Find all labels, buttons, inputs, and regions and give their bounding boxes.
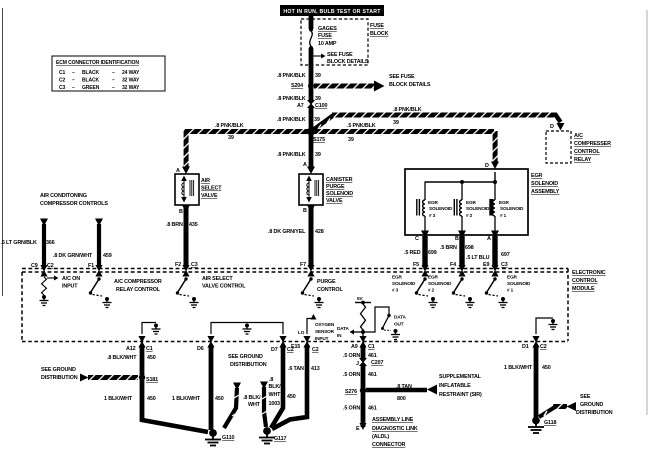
- svg-text:C2: C2: [47, 263, 54, 269]
- svg-text:VALVE CONTROL: VALVE CONTROL: [202, 284, 246, 290]
- svg-text:MODULE: MODULE: [572, 286, 595, 292]
- svg-text:32 WAY: 32 WAY: [122, 85, 140, 91]
- svg-text:32 WAY: 32 WAY: [122, 78, 140, 84]
- svg-text:461: 461: [368, 406, 377, 412]
- svg-text:A: A: [176, 168, 180, 174]
- svg-text:C1: C1: [368, 344, 375, 350]
- svg-text:.6 TAN: .6 TAN: [288, 366, 304, 372]
- svg-text:G118: G118: [544, 420, 556, 426]
- svg-text:# 2: # 2: [428, 288, 435, 293]
- svg-text:WHT: WHT: [269, 392, 282, 398]
- svg-text:SOLENOID: SOLENOID: [500, 206, 524, 211]
- svg-text:COMPRESSOR CONTROLS: COMPRESSOR CONTROLS: [40, 201, 108, 207]
- svg-text:1 BLK/WHT: 1 BLK/WHT: [172, 396, 201, 402]
- svg-text:EGR: EGR: [531, 173, 542, 179]
- svg-text:SOLENOID: SOLENOID: [429, 206, 453, 211]
- svg-text:EGR: EGR: [499, 200, 509, 205]
- svg-text:FUSE: FUSE: [318, 33, 332, 39]
- svg-text:.5 BRN: .5 BRN: [440, 245, 457, 251]
- svg-text:A7: A7: [297, 103, 304, 109]
- svg-text:SOLENOID: SOLENOID: [507, 281, 531, 286]
- svg-text:HOT IN RUN, BULB TEST OR START: HOT IN RUN, BULB TEST OR START: [283, 9, 381, 15]
- svg-text:VALVE: VALVE: [201, 193, 218, 199]
- svg-text:S204: S204: [291, 83, 303, 89]
- svg-text:–: –: [112, 85, 115, 91]
- svg-text:24 WAY: 24 WAY: [122, 70, 140, 76]
- svg-text:LO: LO: [298, 330, 305, 335]
- svg-text:F2: F2: [175, 262, 181, 268]
- svg-text:INFLATABLE: INFLATABLE: [439, 383, 471, 389]
- svg-text:PURGE: PURGE: [326, 184, 345, 190]
- svg-text:–: –: [72, 78, 75, 84]
- svg-text:.8 DK GRN/YEL: .8 DK GRN/YEL: [268, 229, 306, 235]
- svg-text:ASSEMBLY LINE: ASSEMBLY LINE: [372, 417, 414, 423]
- svg-text:E9: E9: [483, 262, 489, 268]
- svg-text:RELAY CONTROL: RELAY CONTROL: [116, 287, 161, 293]
- svg-text:A/C ON: A/C ON: [62, 276, 80, 282]
- svg-text:A: A: [487, 236, 491, 242]
- svg-text:GAGES: GAGES: [318, 26, 337, 32]
- svg-text:.8 BLK/: .8 BLK/: [243, 395, 261, 401]
- svg-text:.8 BRN: .8 BRN: [166, 222, 183, 228]
- svg-text:39: 39: [315, 73, 321, 79]
- svg-text:F4: F4: [450, 262, 456, 268]
- svg-text:C9: C9: [31, 263, 38, 269]
- svg-text:RESTRAINT (SIR): RESTRAINT (SIR): [439, 392, 482, 398]
- svg-text:B: B: [455, 236, 459, 242]
- svg-text:OUT: OUT: [394, 322, 404, 327]
- svg-text:EGR: EGR: [428, 200, 438, 205]
- svg-text:D1: D1: [522, 344, 529, 350]
- svg-text:39: 39: [348, 137, 354, 143]
- svg-text:GREEN: GREEN: [82, 85, 100, 91]
- svg-text:A/C: A/C: [574, 133, 583, 139]
- svg-text:DIAGNOSTIC LINK: DIAGNOSTIC LINK: [372, 426, 418, 432]
- svg-text:BLK/: BLK/: [269, 384, 282, 390]
- svg-text:EGR: EGR: [392, 275, 402, 280]
- svg-text:1 BLK/WHT: 1 BLK/WHT: [504, 365, 533, 371]
- svg-text:DISTRIBUTION: DISTRIBUTION: [576, 410, 613, 416]
- svg-text:# 1: # 1: [500, 213, 507, 218]
- svg-text:WHT: WHT: [248, 402, 261, 408]
- svg-text:INPUT: INPUT: [62, 284, 78, 290]
- svg-text:A12: A12: [126, 346, 136, 352]
- svg-text:SOLENOID: SOLENOID: [428, 281, 452, 286]
- svg-text:.8 DK GRN/WHT: .8 DK GRN/WHT: [53, 253, 93, 259]
- svg-text:BLACK: BLACK: [82, 70, 99, 76]
- svg-text:E: E: [356, 426, 360, 432]
- svg-text:DATA: DATA: [394, 315, 406, 320]
- svg-text:S181: S181: [146, 377, 158, 383]
- svg-text:SEE: SEE: [580, 394, 591, 400]
- svg-text:435: 435: [189, 222, 198, 228]
- svg-text:A/C COMPRESSOR: A/C COMPRESSOR: [114, 279, 162, 285]
- svg-text:INPUT: INPUT: [315, 336, 329, 341]
- svg-text:D: D: [485, 163, 489, 169]
- svg-text:.8: .8: [269, 377, 273, 383]
- svg-text:BLOCK: BLOCK: [370, 31, 389, 37]
- svg-text:.8 PNK/BLK: .8 PNK/BLK: [277, 96, 306, 102]
- svg-text:ELECTRONIC: ELECTRONIC: [572, 270, 606, 276]
- svg-text:450: 450: [147, 396, 156, 402]
- svg-text:SUPPLEMENTAL: SUPPLEMENTAL: [439, 374, 482, 380]
- svg-text:F1: F1: [88, 263, 94, 269]
- svg-text:450: 450: [147, 355, 156, 361]
- svg-text:450: 450: [542, 365, 551, 371]
- svg-text:EGR: EGR: [428, 275, 438, 280]
- svg-text:SEE FUSE: SEE FUSE: [327, 52, 353, 58]
- svg-text:10 AMP: 10 AMP: [318, 41, 337, 47]
- svg-text:C207: C207: [371, 360, 383, 366]
- svg-text:C2: C2: [59, 78, 66, 84]
- svg-text:A9: A9: [351, 344, 358, 350]
- svg-text:VALVE: VALVE: [326, 198, 343, 204]
- svg-text:CONTROL: CONTROL: [317, 287, 343, 293]
- svg-text:# 3: # 3: [429, 213, 436, 218]
- svg-text:B: B: [303, 208, 307, 214]
- svg-text:.5 LT BLU: .5 LT BLU: [466, 255, 490, 261]
- svg-text:# 2: # 2: [466, 213, 473, 218]
- svg-text:S175: S175: [313, 137, 325, 143]
- svg-text:SOLENOID: SOLENOID: [326, 191, 353, 197]
- svg-text:699: 699: [428, 250, 437, 256]
- svg-text:1 BLK/WHT: 1 BLK/WHT: [104, 396, 133, 402]
- svg-text:F7: F7: [300, 262, 306, 268]
- svg-text:G117: G117: [274, 436, 286, 442]
- svg-text:# 3: # 3: [392, 288, 399, 293]
- svg-text:FUSE: FUSE: [370, 23, 384, 29]
- svg-text:698: 698: [465, 245, 474, 251]
- svg-text:–: –: [112, 78, 115, 84]
- svg-text:366: 366: [46, 240, 55, 246]
- svg-text:.5 ORN: .5 ORN: [343, 372, 360, 378]
- svg-text:# 1: # 1: [507, 288, 514, 293]
- svg-text:ASSEMBLY: ASSEMBLY: [531, 189, 560, 195]
- svg-text:CONTROL: CONTROL: [572, 278, 598, 284]
- svg-text:IN: IN: [337, 333, 342, 338]
- svg-text:39: 39: [315, 152, 321, 158]
- svg-text:EGR: EGR: [507, 275, 517, 280]
- svg-text:BLOCK DETAILS: BLOCK DETAILS: [389, 82, 431, 88]
- svg-text:CONTROL: CONTROL: [574, 149, 600, 155]
- svg-text:.8 PNK/BLK: .8 PNK/BLK: [215, 123, 244, 129]
- svg-text:C2: C2: [540, 344, 547, 350]
- svg-text:697: 697: [501, 252, 510, 258]
- svg-text:D7: D7: [271, 347, 278, 353]
- svg-text:461: 461: [368, 353, 377, 359]
- svg-text:F5: F5: [413, 262, 419, 268]
- svg-text:.8 TAN: .8 TAN: [396, 384, 412, 390]
- svg-text:461: 461: [368, 372, 377, 378]
- svg-text:BLACK: BLACK: [82, 78, 99, 84]
- svg-text:CONNECTOR: CONNECTOR: [372, 442, 406, 448]
- svg-text:E15: E15: [291, 344, 300, 350]
- svg-text:DATA: DATA: [337, 326, 349, 331]
- svg-text:428: 428: [315, 229, 324, 235]
- svg-text:SOLENOID: SOLENOID: [466, 206, 490, 211]
- svg-text:C1: C1: [146, 346, 153, 352]
- svg-text:SEE GROUND: SEE GROUND: [228, 354, 263, 360]
- svg-text:.5 ORN: .5 ORN: [343, 406, 360, 412]
- svg-text:.5 RED: .5 RED: [404, 250, 421, 256]
- svg-text:.5 ORN: .5 ORN: [343, 353, 360, 359]
- svg-text:SENSOR: SENSOR: [315, 329, 335, 334]
- svg-text:1003: 1003: [269, 401, 281, 407]
- svg-text:CANISTER: CANISTER: [326, 177, 353, 183]
- svg-text:C: C: [415, 236, 419, 242]
- svg-text:A: A: [303, 162, 307, 168]
- svg-text:C3: C3: [501, 262, 508, 268]
- svg-text:AIR SELECT: AIR SELECT: [202, 276, 233, 282]
- svg-text:SOLENOID: SOLENOID: [392, 281, 416, 286]
- svg-text:AIR CONDITONING: AIR CONDITONING: [40, 193, 87, 199]
- svg-text:BLOCK DETAILS: BLOCK DETAILS: [327, 59, 369, 65]
- svg-text:SELECT: SELECT: [201, 186, 222, 192]
- svg-text:C100: C100: [315, 103, 327, 109]
- svg-text:C2: C2: [312, 347, 319, 353]
- svg-text:G110: G110: [222, 435, 234, 441]
- svg-text:.8 BLK/WHT: .8 BLK/WHT: [107, 355, 137, 361]
- svg-text:DISTRIBUTION: DISTRIBUTION: [41, 375, 78, 381]
- svg-text:D6: D6: [197, 346, 204, 352]
- svg-text:800: 800: [397, 396, 406, 402]
- svg-text:39: 39: [315, 96, 321, 102]
- svg-text:C3: C3: [59, 85, 66, 91]
- svg-text:EGR: EGR: [466, 200, 476, 205]
- svg-text:450: 450: [215, 396, 224, 402]
- svg-text:–: –: [112, 70, 115, 76]
- svg-text:.8 PNK/BLK: .8 PNK/BLK: [277, 152, 306, 158]
- svg-text:413: 413: [311, 366, 320, 372]
- svg-text:S276: S276: [345, 389, 357, 395]
- svg-text:.8 PNK/BLK: .8 PNK/BLK: [277, 73, 306, 79]
- svg-text:.5 LT GRN/BLK: .5 LT GRN/BLK: [1, 240, 38, 246]
- svg-text:SOLENOID: SOLENOID: [531, 181, 558, 187]
- svg-text:OXYGEN: OXYGEN: [315, 322, 335, 327]
- svg-text:ECM CONNECTOR IDENTIFICATION: ECM CONNECTOR IDENTIFICATION: [56, 60, 139, 66]
- svg-text:–: –: [72, 70, 75, 76]
- svg-text:SEE GROUND: SEE GROUND: [41, 367, 76, 373]
- svg-text:RELAY: RELAY: [574, 157, 592, 163]
- svg-text:.8 PNK/BLK: .8 PNK/BLK: [277, 117, 306, 123]
- svg-text:39: 39: [314, 117, 320, 123]
- svg-text:DISTRIBUTION: DISTRIBUTION: [230, 362, 267, 368]
- svg-text:C1: C1: [59, 70, 66, 76]
- svg-text:C3: C3: [191, 262, 198, 268]
- svg-text:AIR: AIR: [201, 178, 210, 184]
- svg-text:PURGE: PURGE: [317, 279, 336, 285]
- svg-text:B: B: [179, 209, 183, 215]
- svg-text:459: 459: [103, 253, 112, 259]
- svg-text:–: –: [72, 85, 75, 91]
- svg-text:SEE FUSE: SEE FUSE: [389, 74, 415, 80]
- svg-text:450: 450: [287, 394, 296, 400]
- svg-text:D: D: [550, 124, 554, 130]
- svg-text:J: J: [356, 361, 359, 367]
- svg-text:(ALDL): (ALDL): [372, 434, 389, 440]
- svg-text:.8 PNK/BLK: .8 PNK/BLK: [393, 107, 422, 113]
- svg-text:.5 PNK/BLK: .5 PNK/BLK: [347, 123, 376, 129]
- svg-text:COMPRESSER: COMPRESSER: [574, 141, 611, 147]
- svg-text:39: 39: [393, 120, 399, 126]
- svg-text:GROUND: GROUND: [580, 402, 603, 408]
- svg-text:39: 39: [228, 135, 234, 141]
